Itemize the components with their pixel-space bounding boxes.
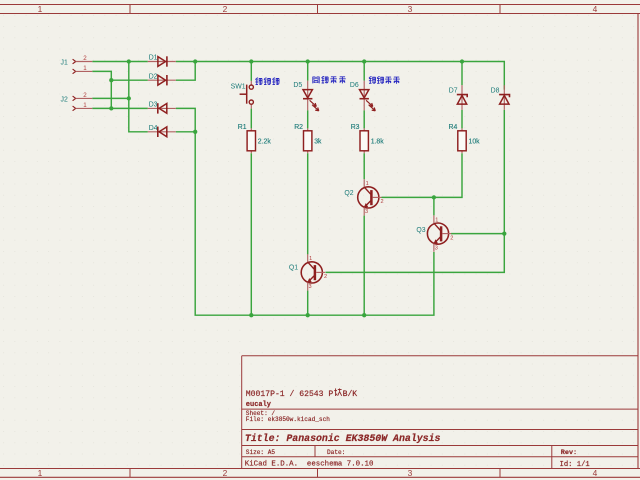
svg-text:3: 3 — [408, 468, 413, 478]
junction — [460, 59, 464, 63]
zener diode D8 — [491, 85, 510, 110]
svg-text:Q1: Q1 — [289, 265, 298, 272]
svg-text:4: 4 — [593, 4, 598, 14]
wire — [92, 97, 129, 99]
junction — [127, 96, 131, 100]
svg-text:Title: Panasonic EK3850W Analy: Title: Panasonic EK3850W Analysis — [245, 433, 441, 444]
svg-text:1: 1 — [83, 102, 87, 109]
wire — [92, 71, 111, 108]
junction — [249, 59, 253, 63]
svg-text:Id: 1/1: Id: 1/1 — [560, 461, 590, 469]
svg-text:1: 1 — [435, 217, 438, 223]
connector J2 — [61, 92, 93, 111]
svg-text:2: 2 — [223, 4, 228, 14]
wire — [250, 62, 252, 81]
junction — [306, 313, 310, 317]
wire — [451, 233, 504, 235]
svg-text:2: 2 — [83, 92, 87, 99]
diode D4 — [148, 125, 176, 137]
svg-text:D1: D1 — [149, 55, 158, 62]
label net SW1 strong-unlock — [255, 78, 279, 85]
svg-text:KiCad E.D.A. eeschema 7.0.10: KiCad E.D.A. eeschema 7.0.10 — [245, 460, 374, 468]
svg-text:3k: 3k — [314, 139, 322, 146]
svg-text:D4: D4 — [149, 125, 158, 132]
junction — [109, 78, 113, 82]
svg-text:Date:: Date: — [327, 449, 345, 456]
svg-text:Q2: Q2 — [344, 190, 353, 197]
svg-text:2: 2 — [223, 468, 228, 478]
wire — [307, 153, 309, 254]
svg-text:R3: R3 — [351, 124, 360, 131]
svg-text:R1: R1 — [238, 124, 247, 131]
svg-text:1: 1 — [83, 65, 87, 72]
svg-text:1: 1 — [38, 468, 43, 478]
svg-text:D5: D5 — [293, 82, 302, 89]
zener diode D7 — [449, 85, 467, 110]
wire — [461, 110, 463, 129]
wire — [195, 132, 434, 315]
svg-text:D8: D8 — [491, 88, 500, 95]
transistor Q3 — [416, 215, 453, 251]
switch SW1 — [231, 81, 254, 109]
wire — [363, 153, 365, 179]
svg-text:10k: 10k — [469, 139, 481, 146]
wire — [363, 110, 365, 128]
wire — [176, 131, 195, 133]
wire — [461, 62, 463, 86]
svg-text:4: 4 — [593, 468, 598, 478]
svg-text:3: 3 — [365, 209, 368, 215]
wire — [307, 110, 309, 128]
svg-text:J2: J2 — [61, 96, 68, 103]
resistor R4 10k — [449, 124, 481, 153]
wire — [250, 153, 252, 315]
wire — [129, 62, 148, 132]
svg-text:1: 1 — [309, 256, 312, 262]
junction — [127, 59, 131, 63]
transistor Q2 — [344, 179, 383, 215]
svg-text:1.8k: 1.8k — [371, 139, 385, 146]
junction — [193, 59, 197, 63]
svg-text:3: 3 — [435, 245, 438, 251]
svg-text:R2: R2 — [294, 124, 303, 131]
wire — [176, 62, 195, 81]
diode D2 — [148, 73, 176, 85]
svg-text:3: 3 — [408, 4, 413, 14]
connector J1 — [61, 55, 93, 74]
transistor Q1 — [289, 254, 327, 290]
wire — [92, 107, 148, 109]
wire — [307, 62, 309, 81]
svg-text:2: 2 — [324, 274, 327, 280]
wire — [176, 62, 505, 90]
resistor R3 1.8k — [351, 124, 385, 153]
junction — [249, 313, 253, 317]
svg-text:Rev:: Rev: — [561, 449, 577, 457]
diode D1 — [148, 55, 176, 67]
wire — [176, 108, 195, 131]
diode D3 — [148, 102, 176, 114]
label net D5 door-open-indicator — [313, 76, 346, 83]
wire — [307, 291, 309, 316]
junction — [109, 106, 113, 110]
wire — [363, 216, 365, 316]
junction — [306, 59, 310, 63]
comment kanji ban — [334, 388, 342, 396]
wire — [382, 197, 434, 215]
svg-text:D6: D6 — [350, 82, 359, 89]
junction — [502, 231, 506, 235]
svg-text:Size: A5: Size: A5 — [246, 449, 276, 456]
wire — [363, 62, 365, 81]
svg-text:1: 1 — [366, 181, 369, 187]
junction — [432, 195, 436, 199]
svg-text:2: 2 — [83, 55, 87, 62]
svg-text:M0017P-1 / 62543 P: M0017P-1 / 62543 P — [246, 390, 334, 399]
svg-text:1: 1 — [38, 4, 43, 14]
svg-text:3: 3 — [309, 284, 312, 290]
svg-text:D2: D2 — [149, 73, 158, 80]
svg-text:Q3: Q3 — [416, 227, 425, 234]
label net D6 unlock-indicator — [369, 77, 400, 84]
svg-text:J1: J1 — [61, 59, 68, 66]
title block — [242, 356, 638, 469]
svg-text:eucaly: eucaly — [246, 401, 272, 409]
resistor R1 2.2k — [238, 124, 272, 153]
svg-text:D3: D3 — [149, 102, 158, 109]
svg-text:2: 2 — [450, 235, 453, 241]
wire — [503, 110, 505, 234]
wire — [92, 61, 148, 63]
svg-text:R4: R4 — [449, 124, 458, 131]
svg-text:B/K: B/K — [343, 390, 358, 399]
svg-text:SW1: SW1 — [231, 83, 246, 90]
wire — [250, 109, 252, 129]
wire — [111, 79, 148, 81]
svg-text:File: ek3850w.kicad_sch: File: ek3850w.kicad_sch — [246, 416, 330, 423]
wire — [325, 234, 504, 273]
resistor R2 3k — [294, 124, 322, 153]
junction — [362, 313, 366, 317]
junction — [362, 59, 366, 63]
svg-text:D7: D7 — [449, 88, 458, 95]
LED D5 — [293, 81, 318, 111]
svg-text:2: 2 — [381, 199, 384, 205]
wire — [434, 153, 462, 197]
LED D6 — [350, 81, 375, 111]
svg-text:2.2k: 2.2k — [258, 139, 272, 146]
junction — [193, 130, 197, 134]
